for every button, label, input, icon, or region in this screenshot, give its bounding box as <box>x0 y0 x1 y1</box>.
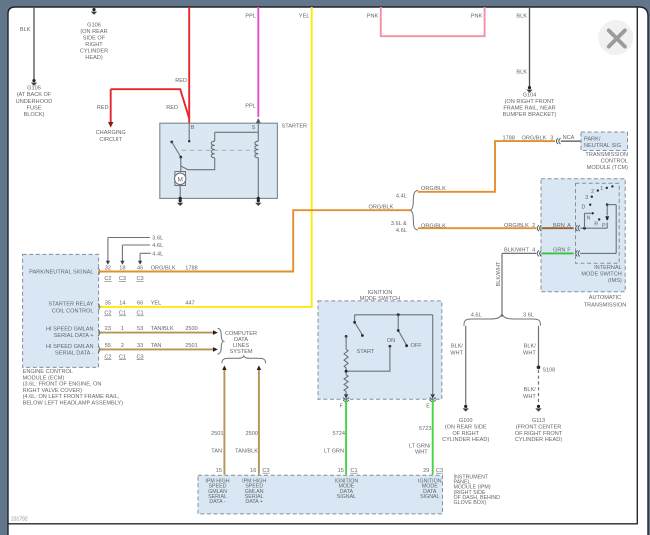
wire ORG/BLK 1788 park/neutral <box>99 210 411 271</box>
svg-text:P: P <box>602 223 606 229</box>
label G100 location <box>442 418 489 443</box>
svg-text:TAN: TAN <box>151 343 162 349</box>
svg-text:(FRONT CENTER: (FRONT CENTER <box>516 424 562 430</box>
wire YEL crank request <box>99 7 312 307</box>
label ORG/BLK 1788 <box>151 266 198 272</box>
svg-text:BLK/WHT: BLK/WHT <box>496 261 502 286</box>
wire BLK/WHT to splice S108 <box>538 326 540 366</box>
TCM connector arc <box>581 138 583 145</box>
label 1788 ORG/BLK 3 <box>503 136 554 142</box>
svg-text:PARK/: PARK/ <box>584 137 601 143</box>
label LT GRN/WHT <box>409 444 431 456</box>
svg-text:COIL CONTROL: COIL CONTROL <box>52 308 94 314</box>
brace over IPM serial wires <box>222 356 266 363</box>
svg-text:231792: 231792 <box>11 517 28 523</box>
svg-text:66: 66 <box>137 301 143 307</box>
ground G104 <box>526 86 532 93</box>
svg-text:BLK: BLK <box>516 14 527 20</box>
wire TAN 2501 to IPM <box>222 365 226 474</box>
svg-text:ON: ON <box>387 338 395 344</box>
TCM box <box>581 132 628 151</box>
svg-text:(4.6L: ON LEFT FRONT FRAME RAI: (4.6L: ON LEFT FRONT FRAME RAIL, <box>23 394 120 400</box>
svg-text:3: 3 <box>585 195 588 201</box>
splice S108 <box>537 366 541 370</box>
svg-text:C2: C2 <box>104 354 111 360</box>
svg-text:33: 33 <box>137 343 143 349</box>
brace engine split orange <box>411 190 418 230</box>
mechanical link (dashed) <box>182 149 256 151</box>
svg-text:GLOVE BOX): GLOVE BOX) <box>454 500 487 506</box>
svg-text:53: 53 <box>137 326 143 332</box>
starter motor M <box>175 172 186 199</box>
svg-text:2500: 2500 <box>185 326 197 332</box>
connector at IMS pin A <box>576 225 580 231</box>
svg-text:C2: C2 <box>104 276 111 282</box>
svg-text:4.6L: 4.6L <box>152 243 163 249</box>
svg-text:CYLINDER HEAD): CYLINDER HEAD) <box>515 437 562 443</box>
svg-text:C3: C3 <box>262 468 269 474</box>
svg-text:S108: S108 <box>543 367 556 373</box>
svg-text:16: 16 <box>250 468 256 474</box>
pin labels C2 C1 C1 <box>104 311 143 317</box>
resistor ladder to F <box>344 335 348 399</box>
svg-text:(ON RIGHT FRONT: (ON RIGHT FRONT <box>505 99 556 105</box>
svg-text:B: B <box>191 125 195 131</box>
svg-text:14: 14 <box>119 301 125 307</box>
ECM connector arc gmlan+ <box>98 329 100 336</box>
ground G100 <box>463 405 469 412</box>
IMS outer box (automatic transmission) <box>541 179 625 292</box>
ground G113 <box>535 405 541 412</box>
svg-text:RIGHT: RIGHT <box>85 42 103 48</box>
wire PPL to starter S <box>257 7 259 117</box>
svg-text:STARTER: STARTER <box>282 123 308 129</box>
svg-text:4: 4 <box>532 247 535 253</box>
svg-text:RED: RED <box>166 105 178 111</box>
svg-text:C3: C3 <box>137 354 144 360</box>
svg-text:1: 1 <box>600 186 603 192</box>
svg-text:2: 2 <box>121 343 124 349</box>
IPM pins 29 C3 <box>423 468 443 474</box>
ignition mode switch box <box>318 301 442 399</box>
wire BLK to G104 <box>529 7 531 86</box>
svg-text:1788: 1788 <box>503 136 515 142</box>
label TRANSMISSION CONTROL MODULE (TCM) <box>585 152 628 171</box>
ignition switch top bus wire <box>355 314 433 316</box>
label BLK/WHT s108 upper <box>523 343 536 356</box>
arrow gmlan- to computer data lines <box>213 347 218 352</box>
connector at IMS pin 2 <box>537 225 541 231</box>
svg-text:M: M <box>177 176 182 183</box>
wire TAN/BLK 2500 to IPM <box>257 365 261 474</box>
starter box <box>160 123 278 198</box>
svg-text:C1: C1 <box>119 354 126 360</box>
svg-text:1: 1 <box>121 326 124 332</box>
svg-text:CONTROL: CONTROL <box>601 159 628 165</box>
wire BLK stub to G106 <box>93 7 95 9</box>
svg-text:FUSE: FUSE <box>27 105 42 111</box>
pin labels C2 C3 C3 <box>104 276 143 282</box>
svg-text:IGNITION: IGNITION <box>368 290 393 296</box>
connector at pin F <box>343 398 349 402</box>
svg-text:(ON REAR SIDE: (ON REAR SIDE <box>445 424 487 430</box>
label INTERNAL MODE SWITCH (IMS) <box>581 265 622 284</box>
svg-text:WHT: WHT <box>450 350 463 356</box>
svg-text:N: N <box>586 216 590 222</box>
svg-text:ORG/BLK: ORG/BLK <box>522 136 547 142</box>
svg-text:AUTOMATIC: AUTOMATIC <box>589 295 621 301</box>
wire TAN/BLK 2500 gmlan+ <box>99 332 214 334</box>
svg-text:TAN/BLK: TAN/BLK <box>151 326 174 332</box>
svg-text:INTERNAL: INTERNAL <box>594 265 622 271</box>
svg-text:3: 3 <box>550 136 553 142</box>
label G113 location <box>515 418 563 443</box>
ECM connector arc starter relay <box>98 304 100 311</box>
brace split to grounds <box>464 314 541 326</box>
IMS wiper arm with arrow <box>605 203 616 253</box>
label BLK/WHT g113 <box>523 387 536 400</box>
wire LT GRN 5724 to IPM <box>345 400 347 475</box>
label IGNITION MODE SWITCH <box>360 290 400 302</box>
svg-text:ORG/BLK: ORG/BLK <box>421 186 446 192</box>
svg-text:PPL: PPL <box>245 103 256 109</box>
wire F to wiper return <box>580 252 616 254</box>
IMS inner box <box>576 183 620 263</box>
terminal B <box>188 123 195 142</box>
svg-text:STARTER RELAY: STARTER RELAY <box>48 302 93 308</box>
svg-text:3.6L &: 3.6L & <box>391 221 407 227</box>
svg-text:MODULE (ECM): MODULE (ECM) <box>23 375 65 381</box>
svg-text:YEL: YEL <box>299 14 310 20</box>
label PARK/NEUTRAL SIG <box>584 137 621 149</box>
label G106 location <box>80 22 108 61</box>
label IGNITION MODE DATA SIGNAL (left) <box>335 479 359 500</box>
wire BLK/WHT to G100 <box>465 326 467 405</box>
svg-text:(ON REAR: (ON REAR <box>80 29 107 35</box>
ground G106 <box>91 8 97 15</box>
svg-text:TRANSMISSION: TRANSMISSION <box>585 152 628 158</box>
junction dot coil ground <box>257 197 260 200</box>
svg-text:C3: C3 <box>137 276 144 282</box>
svg-text:G104: G104 <box>523 93 537 99</box>
starter solenoid switch <box>170 141 182 172</box>
label TAN 2501 <box>151 343 198 349</box>
label HI SPEED GMLAN SERIAL DATA + <box>46 327 94 339</box>
svg-text:(IMS): (IMS) <box>608 278 622 284</box>
connector at NCA <box>556 138 560 144</box>
wire NCA to TCM <box>561 140 581 142</box>
label ORG/BLK 2 pin <box>504 223 535 229</box>
close button <box>598 20 633 55</box>
label YEL 447 <box>151 301 195 307</box>
svg-text:SERIAL DATA -: SERIAL DATA - <box>55 351 94 357</box>
ECM box <box>23 254 99 367</box>
svg-text:BLK: BLK <box>516 70 527 76</box>
IMS position contacts <box>589 185 614 220</box>
label BLK/WHT 4 pin <box>504 247 535 253</box>
pull-in coil <box>211 132 258 157</box>
svg-text:MODULE (TCM): MODULE (TCM) <box>587 165 628 171</box>
svg-text:G113: G113 <box>532 418 545 424</box>
svg-text:C1: C1 <box>350 468 357 474</box>
svg-text:NCA: NCA <box>563 135 575 141</box>
svg-text:CYLINDER HEAD): CYLINDER HEAD) <box>442 437 489 443</box>
svg-text:BLK/WHT: BLK/WHT <box>504 247 529 253</box>
svg-text:15: 15 <box>216 468 222 474</box>
svg-text:A: A <box>567 223 571 229</box>
svg-text:447: 447 <box>185 301 194 307</box>
svg-text:MODE SWITCH: MODE SWITCH <box>581 271 621 277</box>
IPM box <box>198 475 443 514</box>
ground below motor <box>177 199 183 206</box>
svg-text:SIGNAL: SIGNAL <box>337 494 356 500</box>
svg-text:3.6L: 3.6L <box>523 312 534 318</box>
svg-text:ORG/BLK: ORG/BLK <box>504 223 529 229</box>
ground G105 <box>31 79 37 86</box>
svg-text:RIGHT VALVE COVER): RIGHT VALVE COVER) <box>23 388 83 394</box>
svg-text:ORG/BLK: ORG/BLK <box>421 223 446 229</box>
svg-text:S: S <box>252 125 256 131</box>
svg-text:2501: 2501 <box>211 431 223 437</box>
svg-text:15: 15 <box>338 468 344 474</box>
svg-text:CIRCUIT: CIRCUIT <box>99 137 122 143</box>
ECM connector arc park/neutral <box>98 268 100 275</box>
label G104 location <box>503 93 557 118</box>
junction dot motor ground <box>179 197 182 200</box>
IPM pins 15 16 C3 <box>216 468 270 474</box>
svg-text:NEUTRAL SIG: NEUTRAL SIG <box>584 143 621 149</box>
svg-text:GRN: GRN <box>553 247 565 253</box>
svg-text:D: D <box>581 204 585 210</box>
svg-text:PARK/NEUTRAL SIGNAL: PARK/NEUTRAL SIGNAL <box>29 269 93 275</box>
label COMPUTER DATA LINES SYSTEM <box>225 331 257 355</box>
ECM pins 23 1 53 <box>105 326 143 332</box>
svg-text:G106: G106 <box>87 22 101 28</box>
wire LT GRN/WHT 5723 to IPM <box>432 400 434 475</box>
wire BRN jumper <box>542 227 574 229</box>
svg-text:RED: RED <box>175 78 187 84</box>
ECM pins 55 2 33 <box>105 343 143 349</box>
svg-text:55: 55 <box>105 343 111 349</box>
svg-text:LT GRN: LT GRN <box>324 449 344 455</box>
svg-text:(3.6L: FRONT OF ENGINE, ON: (3.6L: FRONT OF ENGINE, ON <box>23 382 102 388</box>
label HI SPEED GMLAN SERIAL DATA - <box>46 344 94 356</box>
pin labels C2 C1 C3 <box>104 354 143 360</box>
svg-text:35: 35 <box>105 301 111 307</box>
svg-text:BLK/: BLK/ <box>524 387 537 393</box>
svg-text:UNDERHOOD: UNDERHOOD <box>16 99 53 105</box>
svg-text:BELOW LEFT HEADLAMP ASSEMBLY): BELOW LEFT HEADLAMP ASSEMBLY) <box>23 401 124 407</box>
svg-text:G100: G100 <box>459 418 473 424</box>
svg-text:OF RIGHT FRONT: OF RIGHT FRONT <box>515 431 563 437</box>
svg-text:4.4L: 4.4L <box>396 193 407 199</box>
svg-text:ENGINE CONTROL: ENGINE CONTROL <box>23 369 73 375</box>
ECM pin stubs with engine brackets <box>106 238 151 265</box>
label IPM HIGH SPEED GMLAN SERIAL DATA + <box>242 479 266 505</box>
label AUTOMATIC TRANSMISSION <box>584 295 627 308</box>
svg-text:2500: 2500 <box>246 431 258 437</box>
label CHARGING CIRCUIT <box>96 130 126 143</box>
svg-text:BLK/: BLK/ <box>524 343 537 349</box>
svg-text:BLOCK): BLOCK) <box>24 112 45 118</box>
svg-text:C3: C3 <box>436 468 443 474</box>
labels 1 2 3 D N R P <box>581 186 606 229</box>
diagram border line right <box>636 7 638 524</box>
ground below coil <box>255 199 261 206</box>
wire ORG/BLK branch to TCM <box>418 141 555 192</box>
terminal S with arrow <box>252 118 261 141</box>
svg-text:OFF: OFF <box>411 343 423 349</box>
IPM pins 15 C1 <box>338 468 358 474</box>
wire TAN 2501 gmlan- <box>99 348 214 350</box>
svg-text:HI SPEED GMLAN: HI SPEED GMLAN <box>46 344 94 350</box>
label INSTRUMENT PANEL MODULE (IPM) location <box>454 475 501 507</box>
svg-text:BLK/: BLK/ <box>451 343 464 349</box>
label IPM HIGH SPEED GMLAN SERIAL DATA - <box>205 479 229 505</box>
ON contact branch <box>348 345 392 371</box>
svg-text:4.4L: 4.4L <box>152 252 163 258</box>
label 3.6L & 4.6L branch <box>391 221 407 234</box>
svg-text:C3: C3 <box>119 276 126 282</box>
svg-text:HI SPEED GMLAN: HI SPEED GMLAN <box>46 327 94 333</box>
svg-text:START: START <box>357 349 375 355</box>
svg-text:DATA +: DATA + <box>245 499 263 505</box>
svg-text:5724: 5724 <box>333 431 345 437</box>
svg-text:WHT: WHT <box>415 450 428 456</box>
junction dot top bus <box>397 313 400 316</box>
svg-text:SIGNAL: SIGNAL <box>420 494 439 500</box>
label IGNITION MODE DATA SIGNAL (right) <box>418 479 442 500</box>
svg-text:C2: C2 <box>104 311 111 317</box>
svg-text:RED: RED <box>97 105 109 111</box>
arrow gmlan+ to computer data lines <box>213 330 218 335</box>
label BLK/WHT g100 <box>450 343 463 356</box>
svg-text:3.6L: 3.6L <box>152 236 163 242</box>
diagram border line bottom <box>8 523 637 525</box>
svg-text:MODE SWITCH: MODE SWITCH <box>360 296 400 302</box>
wire GRN jumper <box>542 252 574 254</box>
svg-text:29: 29 <box>423 468 429 474</box>
wire ORG/BLK branch to IMS <box>418 227 536 229</box>
svg-text:TAN/BLK: TAN/BLK <box>235 449 258 455</box>
svg-text:23: 23 <box>105 326 111 332</box>
connector at pin E <box>430 398 436 402</box>
svg-text:OF RIGHT: OF RIGHT <box>452 431 479 437</box>
svg-text:FRAME RAIL, NEAR: FRAME RAIL, NEAR <box>503 106 555 112</box>
svg-text:4.6L: 4.6L <box>471 312 482 318</box>
wire RED battery feed <box>111 7 190 123</box>
svg-text:WHT: WHT <box>523 394 536 400</box>
svg-text:HEAD): HEAD) <box>85 55 103 61</box>
label G105 location <box>16 86 53 118</box>
ECM connector arc gmlan- <box>98 346 100 353</box>
svg-text:PNK: PNK <box>367 14 379 20</box>
svg-text:CYLINDER: CYLINDER <box>80 48 108 54</box>
svg-text:SYSTEM: SYSTEM <box>229 349 252 355</box>
svg-text:BRN: BRN <box>553 223 565 229</box>
svg-text:5723: 5723 <box>419 426 431 432</box>
svg-text:2501: 2501 <box>185 343 197 349</box>
brace to computer data lines system <box>218 328 224 354</box>
connector at IMS pin F <box>576 250 580 256</box>
svg-text:BUMPER BRACKET): BUMPER BRACKET) <box>503 112 557 118</box>
connector at IMS pin 4 <box>537 250 541 256</box>
svg-text:DATA -: DATA - <box>209 499 226 505</box>
svg-text:G105: G105 <box>27 86 41 92</box>
svg-text:YEL: YEL <box>151 301 162 307</box>
svg-text:2: 2 <box>532 223 535 229</box>
label BRN A <box>553 223 571 229</box>
svg-text:TAN: TAN <box>211 449 222 455</box>
svg-text:F: F <box>567 247 571 253</box>
wire to E terminal <box>431 315 435 399</box>
wire BLK/WHT from IMS <box>502 253 536 317</box>
svg-text:R: R <box>594 221 598 227</box>
svg-text:PPL: PPL <box>245 14 256 20</box>
svg-text:SIDE OF: SIDE OF <box>83 35 106 41</box>
svg-text:TRANSMISSION: TRANSMISSION <box>584 302 627 308</box>
run switch contact <box>397 315 408 347</box>
svg-text:C1: C1 <box>137 311 144 317</box>
svg-text:E: E <box>426 404 430 410</box>
svg-text:WHT: WHT <box>523 350 536 356</box>
hold coil <box>255 141 258 198</box>
svg-text:CHARGING: CHARGING <box>96 130 126 136</box>
wire coil to motor <box>181 158 215 170</box>
label GRN F <box>553 247 571 253</box>
arrow to charging circuit <box>108 122 113 128</box>
svg-text:SERIAL DATA +: SERIAL DATA + <box>54 333 94 339</box>
wire BLK/WHT dashed to G113 <box>538 370 540 405</box>
ECM pins 35 14 66 <box>105 301 143 307</box>
svg-text:4.6L: 4.6L <box>396 228 407 234</box>
wire BLK to G105 <box>33 7 35 79</box>
start switch contact <box>353 315 364 337</box>
svg-text:BLK: BLK <box>20 27 31 33</box>
svg-text:C1: C1 <box>119 311 126 317</box>
IMS wiper common wire <box>580 213 607 229</box>
svg-text:ORG/BLK: ORG/BLK <box>369 205 394 211</box>
ECM pins 32 18 46 <box>105 266 143 272</box>
svg-text:PNK: PNK <box>471 14 483 20</box>
label ENGINE CONTROL MODULE (ECM) location <box>23 369 124 407</box>
svg-text:(AT BACK OF: (AT BACK OF <box>17 92 52 98</box>
svg-text:2: 2 <box>591 189 594 195</box>
label TAN/BLK 2500 <box>151 326 198 332</box>
wire PNK loop <box>381 7 485 36</box>
label STARTER RELAY COIL CONTROL <box>48 302 93 315</box>
